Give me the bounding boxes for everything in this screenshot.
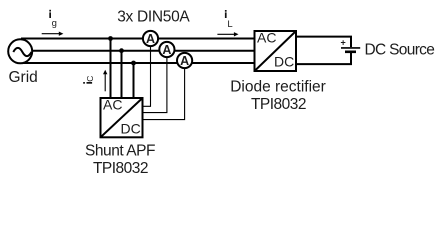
svg-text:TPI8032: TPI8032 <box>251 96 306 113</box>
svg-text:A: A <box>162 43 171 57</box>
label i_L <box>225 10 233 30</box>
svg-text:Shunt APF: Shunt APF <box>85 143 155 160</box>
svg-text:AC: AC <box>257 30 276 46</box>
wire DC link positive <box>296 37 351 48</box>
svg-text:DC Source: DC Source <box>365 42 435 59</box>
node junction dot 1 <box>108 36 113 41</box>
converter box U2 Diode rectifier <box>255 30 297 72</box>
current arrow i_L <box>217 32 238 36</box>
svg-text:Diode rectifier: Diode rectifier <box>230 79 326 96</box>
battery DC source symbol <box>341 48 360 52</box>
wire sensor lead from A2 to APF <box>143 50 167 113</box>
label i_g <box>49 10 57 29</box>
wire phase 1 (top bus) <box>21 38 255 40</box>
ammeter A3 <box>177 53 192 68</box>
wire sensor lead from A1 to APF <box>143 39 151 107</box>
svg-text:AC: AC <box>103 97 122 113</box>
svg-text:A: A <box>146 32 155 46</box>
node junction dot 2 <box>119 48 124 53</box>
label i_C (rotated) <box>83 76 95 84</box>
svg-text:L: L <box>227 19 232 30</box>
ammeter A1 <box>143 31 158 46</box>
svg-text:A: A <box>180 54 189 68</box>
svg-text:C: C <box>85 76 95 82</box>
wire DC link negative <box>296 53 351 65</box>
wire phase 2 (middle bus) <box>21 50 255 52</box>
wire sensor lead from A3 to APF <box>143 61 185 120</box>
svg-text:DC: DC <box>121 121 141 137</box>
svg-text:+: + <box>341 38 346 48</box>
converter box U1 Shunt APF <box>101 97 143 138</box>
wire phase 3 (bottom bus) <box>21 62 255 64</box>
node junction dot 3 <box>131 61 136 66</box>
current arrow i_C <box>103 70 107 92</box>
current arrow i_g <box>42 32 64 36</box>
ammeter A2 <box>159 42 174 57</box>
wire tap 2 to APF <box>121 51 123 98</box>
AC source (Grid) <box>8 39 32 63</box>
svg-text:DC: DC <box>274 54 294 70</box>
wire tap 1 to APF <box>110 39 112 99</box>
svg-text:3x DIN50A: 3x DIN50A <box>117 9 190 26</box>
svg-text:TPI8032: TPI8032 <box>93 160 148 177</box>
svg-text:g: g <box>52 18 57 29</box>
wire tap 3 to APF <box>133 63 135 98</box>
svg-text:Grid: Grid <box>9 69 38 86</box>
